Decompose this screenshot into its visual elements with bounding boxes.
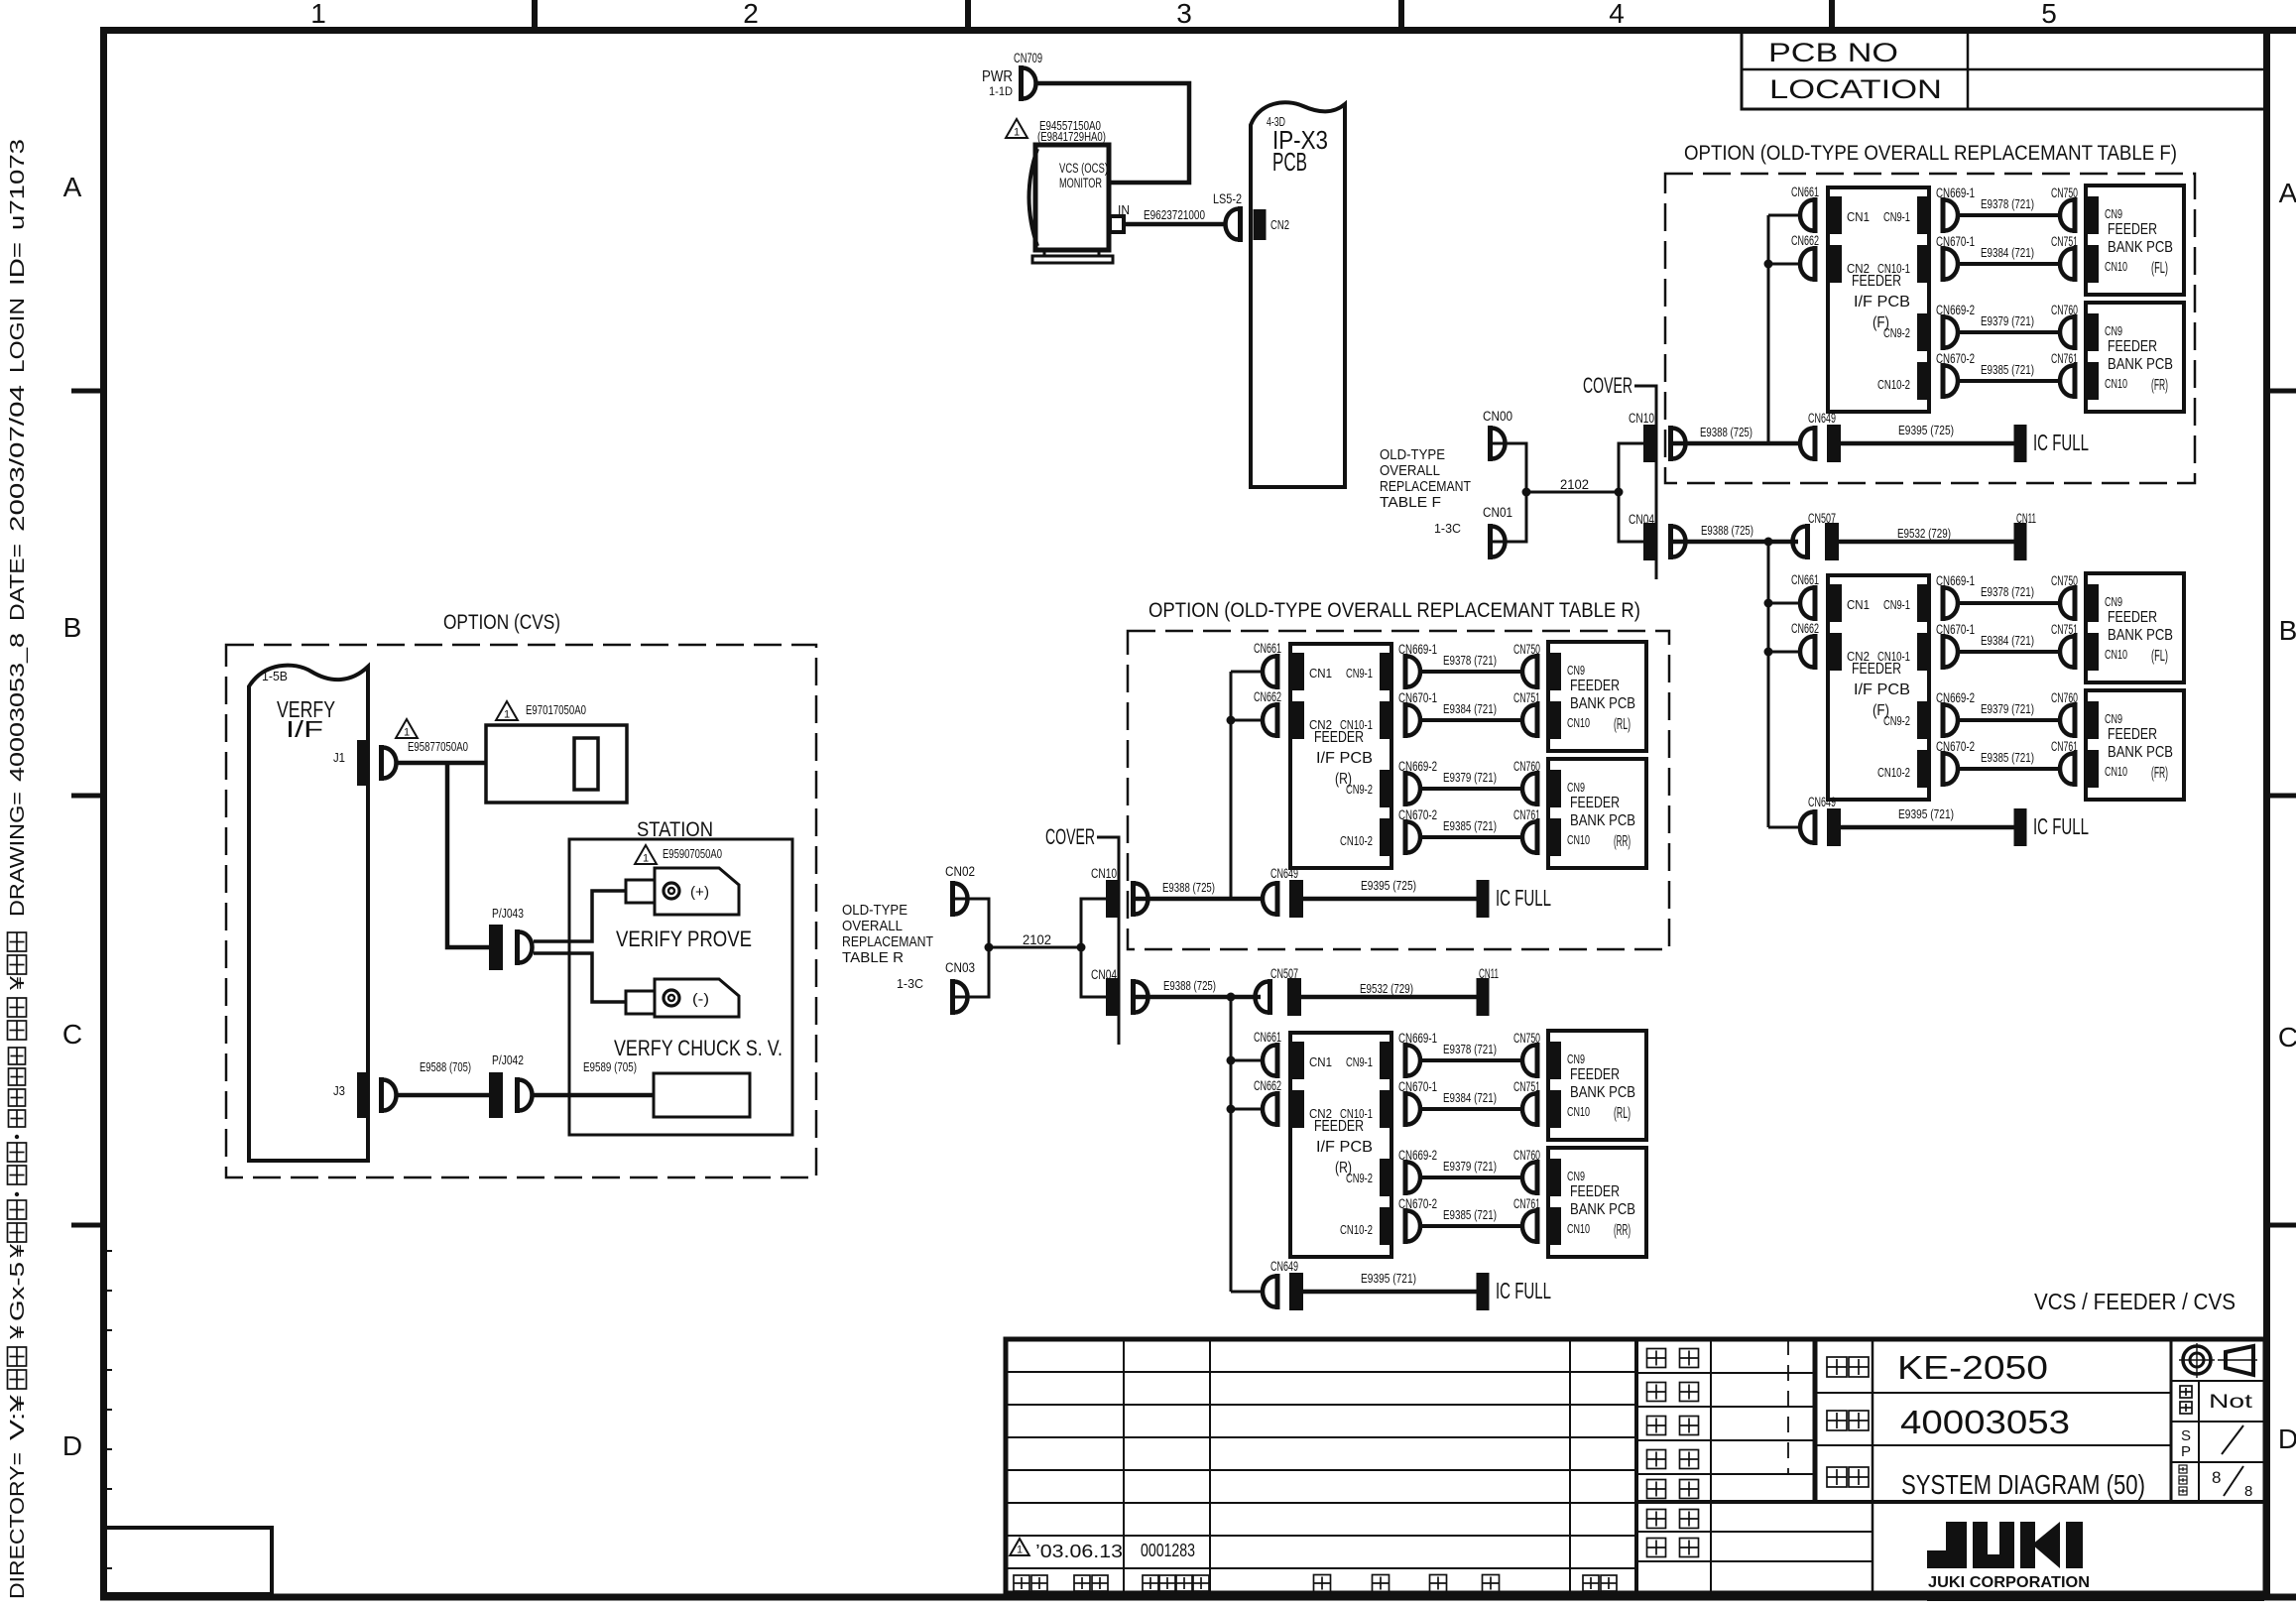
svg-text:E9395 (721): E9395 (721) — [1361, 1272, 1416, 1286]
projection symbol cone — [2226, 1346, 2253, 1375]
FEEDER I/F PCB box (feeder R cluster) — [1290, 1033, 1391, 1257]
svg-text:TABLE F: TABLE F — [1380, 495, 1441, 511]
cover boundary line (table R) — [1097, 837, 1119, 1045]
svg-text:CN9: CN9 — [1567, 780, 1585, 795]
connector CN670-2 (table F option cluster) — [1941, 363, 1946, 399]
pin CN649 pad (table F option cluster) — [1827, 425, 1841, 462]
bottom-left reference box — [103, 1528, 272, 1594]
svg-text:CN662: CN662 — [1254, 689, 1281, 704]
svg-text:CN750: CN750 — [1513, 1031, 1540, 1046]
svg-text:J1: J1 — [333, 750, 345, 765]
connector CN669-1 (table R option cluster) — [1403, 654, 1408, 689]
svg-text:E9384 (721): E9384 (721) — [1443, 702, 1497, 716]
connector CN649 (table F option cluster) — [1813, 426, 1818, 461]
svg-text:CN04: CN04 — [1091, 967, 1117, 982]
junction dot feeding lower cluster (table R) — [1227, 993, 1236, 1002]
junction dot right of 2102 wire (table R) — [1077, 943, 1086, 952]
label 尺度 / Not — [2180, 1386, 2192, 1398]
svg-text:CN669-2: CN669-2 — [1936, 303, 1975, 317]
pin CN9-2 pad (feeder F cluster) — [1917, 701, 1929, 739]
svg-text:CN1: CN1 — [1847, 597, 1870, 612]
wire stub to CN662 (table R option cluster) — [1231, 719, 1263, 722]
svg-text:40003053: 40003053 — [1900, 1404, 2070, 1440]
svg-text:BANK PCB: BANK PCB — [1570, 812, 1635, 829]
connector CN750 (table R option cluster) — [1535, 654, 1540, 689]
pin J1 pad — [357, 740, 369, 786]
svg-text:E9379 (721): E9379 (721) — [1443, 1160, 1497, 1174]
svg-text:CN1: CN1 — [1309, 666, 1332, 681]
svg-text:CN670-2: CN670-2 — [1398, 807, 1437, 822]
svg-text:OPTION (CVS): OPTION (CVS) — [443, 611, 560, 634]
revision table row lines — [1006, 1371, 1636, 1373]
svg-text:2102: 2102 — [1560, 477, 1589, 492]
svg-text:OLD-TYPE: OLD-TYPE — [1380, 447, 1445, 463]
pin CN9-1 pad (feeder R cluster) — [1380, 1042, 1391, 1079]
svg-text:(+): (+) — [690, 884, 709, 901]
title block outer frame — [1006, 1339, 2265, 1593]
branch wire from chain up to CN661 (table R option cluster) — [1230, 672, 1233, 899]
connector CN662 (feeder F cluster) — [1813, 634, 1818, 670]
svg-text:1: 1 — [310, 0, 326, 29]
approval section divider — [1634, 1339, 1638, 1593]
svg-text:C: C — [62, 1019, 82, 1050]
svg-text:CN670-2: CN670-2 — [1398, 1196, 1437, 1211]
wire E9378 (721) (table R option cluster) — [1422, 670, 1522, 674]
pin P/J042 pad — [489, 1072, 503, 1118]
wire stub to CN661 (table F option cluster) — [1768, 214, 1800, 217]
connector CN661 (feeder R cluster) — [1275, 1043, 1280, 1078]
wire 2102 (table R) — [989, 946, 1081, 949]
FEEDER BANK PCB (RL) box (feeder R cluster) — [1548, 1031, 1646, 1140]
wire J1 to E97017050A0 box — [398, 761, 486, 766]
wire E9388 (725) row1 (table F) — [1673, 441, 1798, 446]
pin CN9/CN10 pad on bank (feeder F cluster row 3) — [2087, 701, 2099, 739]
svg-text:I/F: I/F — [286, 716, 323, 742]
svg-text:FEEDER: FEEDER — [2108, 221, 2157, 238]
svg-text:KE-2050: KE-2050 — [1897, 1349, 2048, 1386]
pin CN04 pad (table R) — [1106, 978, 1119, 1016]
FEEDER BANK PCB (RL) box (table R option cluster) — [1548, 642, 1646, 751]
svg-text:C: C — [2278, 1022, 2296, 1052]
svg-text:D: D — [62, 1430, 82, 1461]
wire stub to CN661 (table R option cluster) — [1231, 671, 1263, 674]
pin CN9-2 pad (feeder R cluster) — [1380, 1159, 1391, 1196]
svg-text:MONITOR: MONITOR — [1059, 176, 1102, 190]
svg-text:CN750: CN750 — [1513, 642, 1540, 657]
svg-text:E9378 (721): E9378 (721) — [1981, 197, 2034, 211]
svg-text:FEEDER: FEEDER — [2108, 609, 2157, 626]
zone tick marks right — [2270, 389, 2296, 394]
svg-text:CN9: CN9 — [2105, 323, 2122, 338]
wire E9384 (721) (feeder F cluster) — [1960, 650, 2060, 654]
svg-text:FEEDER: FEEDER — [1314, 729, 1364, 746]
left border ruler ticks — [103, 1250, 112, 1252]
svg-text:(FR): (FR) — [2151, 765, 2168, 782]
svg-text:FEEDER: FEEDER — [1852, 273, 1901, 290]
FEEDER I/F PCB box (table F option cluster) — [1828, 187, 1929, 412]
svg-text:CN669-1: CN669-1 — [1398, 642, 1437, 657]
svg-text:OVERALL: OVERALL — [842, 919, 903, 934]
connector at P/J043 — [515, 929, 520, 965]
svg-text:IC FULL: IC FULL — [1496, 885, 1551, 911]
svg-text:ID=: ID= — [7, 242, 29, 286]
dashed box TABLE R option — [1128, 631, 1669, 949]
svg-text:(RR): (RR) — [1614, 1222, 1631, 1239]
svg-text:CN761: CN761 — [2051, 351, 2078, 366]
svg-text:5: 5 — [2041, 0, 2057, 29]
svg-text:BANK PCB: BANK PCB — [2108, 627, 2173, 644]
connector CN750 (table F option cluster) — [2073, 197, 2078, 233]
svg-text:CN9: CN9 — [1567, 1052, 1585, 1066]
svg-text:1-1D: 1-1D — [989, 84, 1013, 98]
scale section left edge — [2170, 1339, 2173, 1502]
connector CN669-1 (feeder F cluster) — [1941, 585, 1946, 621]
connector CN662 (table R option cluster) — [1275, 702, 1280, 738]
wire 2102 (table F) — [1526, 491, 1619, 494]
pin CN10-2 pad (table R option cluster) — [1380, 818, 1391, 856]
svg-text:(FR): (FR) — [2151, 377, 2168, 394]
svg-text:VCS (OCS): VCS (OCS) — [1059, 161, 1108, 176]
wire stub to CN661 (feeder F cluster) — [1768, 602, 1800, 605]
svg-text:4: 4 — [1609, 0, 1625, 29]
pin CN1 pad (table R option cluster) — [1292, 653, 1304, 690]
svg-text:DATE=: DATE= — [7, 544, 29, 621]
junction dot at CN662 level (feeder R cluster) — [1227, 1105, 1236, 1114]
junction dot at CN662 level (table R option cluster) — [1227, 716, 1236, 725]
wire E9379 (721) (table F option cluster) — [1960, 330, 2060, 334]
junction dot at CN662 level (table F option cluster) — [1764, 260, 1773, 269]
svg-text:’03.06.13: ’03.06.13 — [1035, 1541, 1123, 1561]
wire E9379 (721) (table R option cluster) — [1422, 787, 1522, 791]
svg-text:CN1: CN1 — [1847, 209, 1870, 224]
zone tick marks top — [532, 0, 538, 27]
connector at J1 — [379, 745, 384, 781]
junction dot at CN661 level (feeder R cluster) — [1227, 1056, 1236, 1065]
svg-text:CN669-1: CN669-1 — [1936, 573, 1975, 588]
svg-text:FEEDER: FEEDER — [1570, 1066, 1620, 1083]
svg-text:PCB: PCB — [1272, 147, 1307, 177]
svg-text:E9384 (721): E9384 (721) — [1981, 246, 2034, 260]
wire E9384 (721) (table F option cluster) — [1960, 262, 2060, 266]
connector CN661 (table R option cluster) — [1275, 654, 1280, 689]
wire E9385 (721) (feeder R cluster) — [1422, 1224, 1522, 1228]
wire E9532 (729) (table R) — [1301, 995, 1477, 1000]
FEEDER I/F PCB box (feeder F cluster) — [1828, 575, 1929, 800]
svg-text:CN649: CN649 — [1270, 866, 1298, 881]
svg-text:CN670-1: CN670-1 — [1398, 1079, 1437, 1094]
svg-text:CN1: CN1 — [1309, 1054, 1332, 1069]
connector CN670-1 (table F option cluster) — [1941, 246, 1946, 282]
connector CN760 (feeder R cluster) — [1535, 1160, 1540, 1195]
revision header 変更記事 — [1314, 1575, 1331, 1592]
pin IC FULL pad (feeder R cluster) — [1477, 1273, 1490, 1310]
connector CN661 (table F option cluster) — [1813, 197, 1818, 233]
svg-text:CN760: CN760 — [2051, 690, 2078, 705]
svg-text:E9379 (721): E9379 (721) — [1443, 771, 1497, 785]
svg-text:J3: J3 — [333, 1083, 345, 1098]
connector CN751 (feeder R cluster) — [1535, 1091, 1540, 1127]
svg-text:E9532 (729): E9532 (729) — [1360, 982, 1413, 996]
svg-text:CN669-1: CN669-1 — [1398, 1031, 1437, 1046]
warning triangle 1 (E95877050A0) — [396, 719, 418, 738]
svg-text:BANK PCB: BANK PCB — [1570, 1084, 1635, 1101]
svg-text:E9388 (725): E9388 (725) — [1163, 979, 1216, 993]
bracket wires to CN10/CN04 pads (table R) — [1081, 899, 1106, 997]
pin CN11 pad (table R) — [1477, 978, 1490, 1016]
projection symbol target — [2183, 1346, 2211, 1374]
pin CN04 pad (table F) — [1643, 523, 1656, 560]
connector at J3 — [379, 1077, 384, 1113]
svg-text:¥: ¥ — [7, 1243, 29, 1259]
connector CN761 (feeder F cluster) — [2073, 751, 2078, 787]
svg-text:1: 1 — [643, 853, 649, 865]
verfy chuck solenoid box — [654, 1073, 750, 1117]
svg-text:CN10: CN10 — [1567, 1221, 1590, 1236]
svg-text:CN751: CN751 — [2051, 622, 2078, 637]
svg-text:CN03: CN03 — [945, 960, 975, 975]
svg-text:DRAWING=: DRAWING= — [7, 792, 29, 917]
svg-text:PWR: PWR — [982, 68, 1013, 85]
svg-text:E9395 (725): E9395 (725) — [1361, 879, 1416, 893]
pin CN2 pad (table R option cluster) — [1292, 701, 1304, 739]
junction dot feeding lower cluster (table F) — [1764, 538, 1773, 547]
svg-text:CN9: CN9 — [1567, 1169, 1585, 1183]
pin CN10 pad (table R) — [1106, 880, 1119, 918]
pin CN9/CN10 pad on bank (table F option cluster row 4) — [2087, 362, 2099, 400]
svg-text:OPTION (OLD-TYPE OVERALL REPLA: OPTION (OLD-TYPE OVERALL REPLACEMANT TAB… — [1684, 142, 2177, 165]
branch wire from chain down to CN649 (feeder R cluster) — [1230, 997, 1233, 1292]
FEEDER BANK PCB (FR) box (feeder F cluster) — [2086, 690, 2184, 800]
connector LS5-2 — [1238, 206, 1243, 242]
pin CN9-1 pad (table F option cluster) — [1917, 196, 1929, 234]
svg-text:E9388 (725): E9388 (725) — [1701, 524, 1753, 538]
connector CN670-2 (feeder F cluster) — [1941, 751, 1946, 787]
connector at P/J042 — [515, 1077, 520, 1113]
junction dot at CN661 level (feeder F cluster) — [1764, 599, 1773, 608]
svg-text:u71073: u71073 — [7, 139, 29, 230]
svg-text:CN10-2: CN10-2 — [1340, 833, 1373, 848]
cover boundary line (table F) — [1634, 386, 1656, 579]
svg-text:CN670-1: CN670-1 — [1398, 690, 1437, 705]
svg-text:CN649: CN649 — [1270, 1259, 1298, 1274]
storage rows 保管/類似 — [1636, 1531, 1873, 1533]
svg-text:E97017050A0: E97017050A0 — [526, 703, 586, 717]
pin CN9/CN10 pad on bank (table R option cluster row 3) — [1549, 770, 1561, 807]
svg-text:I/F PCB: I/F PCB — [1854, 681, 1910, 698]
svg-text:P: P — [2181, 1443, 2191, 1460]
wire E9379 (721) (feeder F cluster) — [1960, 718, 2060, 722]
svg-text:CN10: CN10 — [1567, 1104, 1590, 1119]
svg-text:CN2: CN2 — [1270, 217, 1289, 232]
svg-text:V:¥: V:¥ — [7, 1394, 29, 1440]
pin CN11 pad (table F) — [2014, 523, 2027, 560]
connector CN670-2 (feeder R cluster) — [1403, 1208, 1408, 1244]
revision table vertical lines — [1123, 1339, 1125, 1593]
pin J3 pad — [357, 1072, 369, 1118]
svg-text:CN661: CN661 — [1791, 185, 1819, 199]
E97017050A0 unit box — [486, 725, 627, 803]
svg-text:CN760: CN760 — [2051, 303, 2078, 317]
connector CN669-1 (feeder R cluster) — [1403, 1043, 1408, 1078]
svg-text:CN761: CN761 — [1513, 807, 1540, 822]
svg-text:FEEDER: FEEDER — [1314, 1118, 1364, 1135]
connector CN661 (feeder F cluster) — [1813, 585, 1818, 621]
wire stub to CN662 (feeder F cluster) — [1768, 651, 1800, 654]
svg-text:E9395 (721): E9395 (721) — [1898, 807, 1954, 821]
svg-text:OPTION (OLD-TYPE OVERALL REPLA: OPTION (OLD-TYPE OVERALL REPLACEMANT TAB… — [1148, 599, 1640, 622]
svg-text:CN04: CN04 — [1629, 512, 1654, 527]
svg-text:VERIFY PROVE: VERIFY PROVE — [616, 927, 752, 951]
svg-text:IC FULL: IC FULL — [1496, 1278, 1551, 1303]
svg-text:CN10: CN10 — [1091, 866, 1117, 881]
VERFY I/F block — [249, 666, 368, 1161]
svg-text:B: B — [63, 612, 82, 643]
junction dot at CN662 level (feeder F cluster) — [1764, 648, 1773, 657]
wire stub to CN662 (table F option cluster) — [1768, 263, 1800, 266]
svg-text:8: 8 — [2244, 1483, 2252, 1500]
pin P/J043 pad — [489, 925, 503, 970]
inner connector rect of unit — [574, 738, 598, 790]
pin CN9-2 pad (table R option cluster) — [1380, 770, 1391, 807]
svg-text:P/J042: P/J042 — [492, 1052, 524, 1067]
pin CN507 pad (table F) — [1825, 523, 1839, 560]
svg-text:S: S — [2181, 1427, 2191, 1444]
svg-text:E9379 (721): E9379 (721) — [1981, 702, 2034, 716]
svg-text:CN709: CN709 — [1014, 51, 1042, 65]
wire E9395 (725) (table R option cluster) — [1303, 897, 1477, 902]
svg-text:LOGIN: LOGIN — [7, 298, 29, 373]
connector CN03 — [950, 979, 955, 1015]
svg-text:CN662: CN662 — [1791, 233, 1819, 248]
label 品番 — [1827, 1411, 1847, 1430]
svg-text:1: 1 — [1014, 127, 1020, 139]
FEEDER I/F PCB box (table R option cluster) — [1290, 644, 1391, 868]
svg-text:FEEDER: FEEDER — [1852, 661, 1901, 678]
svg-text:CN9-1: CN9-1 — [1346, 1054, 1373, 1069]
pin CN9/CN10 pad on bank (feeder F cluster row 4) — [2087, 750, 2099, 788]
svg-text:IN: IN — [1118, 202, 1130, 217]
svg-text:JUKI CORPORATION: JUKI CORPORATION — [1928, 1574, 2090, 1591]
svg-text:IC FULL: IC FULL — [2033, 430, 2089, 455]
svg-text:E9379 (721): E9379 (721) — [1981, 314, 2034, 328]
wire E9378 (721) (table F option cluster) — [1960, 213, 2060, 217]
svg-text:E95877050A0: E95877050A0 — [408, 740, 468, 754]
svg-text:CN10-2: CN10-2 — [1877, 765, 1910, 780]
svg-text:E9385 (721): E9385 (721) — [1981, 363, 2034, 377]
PCB NO / LOCATION table — [1742, 32, 2265, 109]
svg-text:CN10: CN10 — [2105, 764, 2127, 779]
svg-text:E9589 (705): E9589 (705) — [583, 1060, 637, 1074]
monitor pedestal — [1044, 250, 1099, 256]
svg-text:E9385 (721): E9385 (721) — [1443, 819, 1497, 833]
bracket wires CN00/CN01 (table R) — [955, 899, 989, 997]
IP-X3 PCB block — [1251, 102, 1345, 487]
svg-text:CN01: CN01 — [1483, 505, 1512, 520]
pin CN507 pad (table R) — [1287, 978, 1301, 1016]
svg-text:CN9-2: CN9-2 — [1883, 325, 1910, 340]
svg-text:CN662: CN662 — [1791, 621, 1819, 636]
svg-text:2003/07/04: 2003/07/04 — [7, 385, 29, 532]
svg-text:COVER: COVER — [1045, 824, 1095, 849]
connector CN669-2 (table F option cluster) — [1941, 314, 1946, 350]
svg-text:TABLE R: TABLE R — [842, 950, 904, 966]
svg-text:CN9-1: CN9-1 — [1883, 209, 1910, 224]
svg-text:CN10: CN10 — [1629, 411, 1654, 426]
svg-text:2: 2 — [743, 0, 759, 29]
svg-text:BANK PCB: BANK PCB — [2108, 744, 2173, 761]
svg-text:IC FULL: IC FULL — [2033, 813, 2089, 839]
warning triangle 1 (E97017050A0) — [496, 701, 518, 720]
svg-text:CN10: CN10 — [2105, 376, 2127, 391]
pin CN10-2 pad (feeder R cluster) — [1380, 1207, 1391, 1245]
pin IC FULL pad (table F option cluster) — [2014, 425, 2027, 462]
junction dot left of 2102 wire (table F) — [1522, 488, 1531, 497]
wires P/J043 to probes — [534, 891, 626, 941]
svg-text:0001283: 0001283 — [1141, 1541, 1195, 1560]
revision header 担当 — [1583, 1575, 1599, 1591]
warning triangle 1 (E95907050A0) — [635, 845, 657, 864]
svg-text:D: D — [2278, 1423, 2296, 1454]
svg-text:CN9-2: CN9-2 — [1346, 782, 1373, 797]
connector CN751 (table R option cluster) — [1535, 702, 1540, 738]
wire E9384 (721) (feeder R cluster) — [1422, 1107, 1522, 1111]
pin CN10-1 pad (feeder R cluster) — [1380, 1090, 1391, 1128]
svg-text:CN10: CN10 — [1567, 715, 1590, 730]
approval row lines — [1636, 1372, 1815, 1374]
svg-text:DIRECTORY=: DIRECTORY= — [7, 1452, 29, 1599]
pin CN9/CN10 pad on bank (feeder F cluster row 1) — [2087, 584, 2099, 622]
pin CN9/CN10 pad on bank (table F option cluster row 3) — [2087, 313, 2099, 351]
svg-text:CN9-1: CN9-1 — [1346, 666, 1373, 681]
svg-text:(FL): (FL) — [2151, 648, 2168, 665]
wire E9385 (721) (feeder F cluster) — [1960, 767, 2060, 771]
pin CN10-2 pad (table F option cluster) — [1917, 362, 1929, 400]
svg-text:8: 8 — [2212, 1468, 2221, 1487]
svg-text:FEEDER: FEEDER — [2108, 726, 2157, 743]
svg-text:A: A — [2279, 178, 2296, 208]
pin CN9/CN10 pad on bank (table F option cluster row 1) — [2087, 196, 2099, 234]
wire E9384 (721) (table R option cluster) — [1422, 718, 1522, 722]
wire into CN649 (feeder F cluster) — [1768, 826, 1800, 829]
svg-text:PCB NO: PCB NO — [1768, 38, 1898, 67]
FEEDER BANK PCB (FL) box (feeder F cluster) — [2086, 573, 2184, 682]
revision entry warning triangle — [1010, 1539, 1029, 1555]
drawing frame border — [100, 27, 2296, 34]
wire E9589 (705) — [534, 1093, 654, 1098]
connector CN01 — [1488, 524, 1493, 559]
pin CN9/CN10 pad on bank (table R option cluster row 4) — [1549, 818, 1561, 856]
bracket wires to CN10/CN04 pads (table F) — [1619, 443, 1643, 542]
wire E9388 (725) row2 (table F) — [1673, 540, 1798, 545]
FEEDER BANK PCB (FL) box (table F option cluster) — [2086, 186, 2184, 295]
svg-text:(RL): (RL) — [1614, 1105, 1631, 1122]
branch wire from chain down to CN649 (feeder F cluster) — [1767, 542, 1770, 827]
wire E9385 (721) (table R option cluster) — [1422, 835, 1522, 839]
connector CN750 (feeder R cluster) — [1535, 1043, 1540, 1078]
svg-text:CN11: CN11 — [2016, 511, 2036, 526]
svg-text:REPLACEMANT: REPLACEMANT — [842, 934, 933, 950]
svg-text:CN670-1: CN670-1 — [1936, 234, 1975, 249]
FEEDER BANK PCB (FR) box (table F option cluster) — [2086, 303, 2184, 412]
wire E9623721000 — [1124, 222, 1224, 227]
svg-text:CN669-2: CN669-2 — [1398, 1148, 1437, 1163]
svg-text:CN669-1: CN669-1 — [1936, 186, 1975, 200]
svg-text:CN11: CN11 — [1479, 966, 1499, 981]
connector CN761 (feeder R cluster) — [1535, 1208, 1540, 1244]
connector CN751 (feeder F cluster) — [2073, 634, 2078, 670]
svg-text:BANK PCB: BANK PCB — [2108, 356, 2173, 373]
wire E9532 (729) (table F) — [1839, 540, 2014, 545]
